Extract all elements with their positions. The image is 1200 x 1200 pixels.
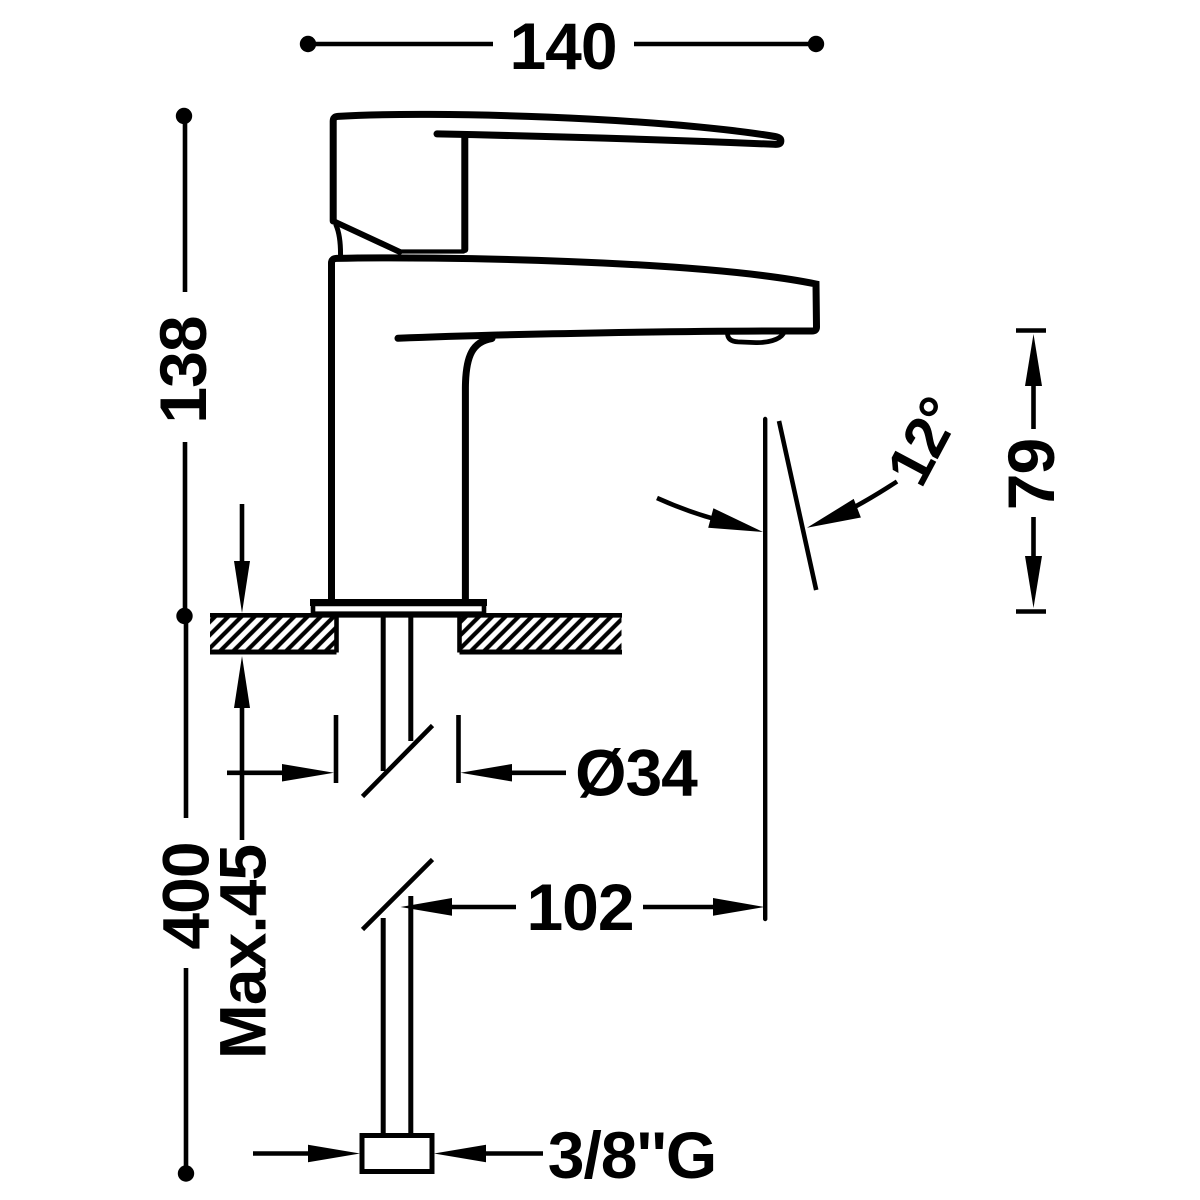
dia 34 left arrow: [227, 764, 334, 782]
dim 400 upper line: [184, 623, 189, 818]
threaded rod upper segment: [383, 617, 411, 771]
handle body: [333, 114, 781, 221]
handle rear diagonal: [334, 221, 400, 252]
handle front edge and bottom: [461, 137, 468, 250]
svg-text:3/8''G: 3/8''G: [548, 1118, 716, 1192]
Max.45 down arrow: [234, 504, 250, 613]
dim 102 right line and arrow: [643, 898, 765, 916]
counter top line: [210, 613, 622, 618]
handle pivot arc: [336, 225, 341, 258]
svg-text:Ø34: Ø34: [575, 736, 698, 810]
dim 140 right line: [634, 42, 812, 47]
dia 34 left extension line: [334, 715, 339, 783]
dim 140 left dot: [300, 36, 316, 52]
Max.45 up arrow: [234, 656, 250, 840]
faucet spout underside fillet and column front edge: [465, 339, 492, 602]
dim 138 top dot: [176, 108, 192, 124]
dim 138 upper line: [183, 122, 188, 292]
svg-text:140: 140: [509, 9, 616, 83]
dim 140 right dot: [808, 36, 824, 52]
rod lower break slash: [363, 860, 433, 930]
aerator bump: [728, 334, 784, 343]
dim 138/400 shared dot: [176, 608, 192, 624]
3/8 connector square: [362, 1136, 432, 1172]
dim 79 top tick: [1016, 328, 1046, 333]
dim 79 up arrow: [1025, 334, 1042, 429]
dia 34 right extension line: [456, 715, 461, 783]
svg-text:102: 102: [526, 870, 633, 944]
dim 400 bottom dot: [178, 1165, 194, 1181]
svg-text:79: 79: [994, 439, 1068, 510]
dim 79 down arrow: [1025, 517, 1042, 608]
12 deg slanted stream line: [779, 421, 816, 590]
dim 102 left arrow: [401, 898, 517, 916]
svg-text:138: 138: [146, 316, 220, 423]
handle bottom edge: [400, 249, 464, 253]
rod upper break slash: [363, 726, 433, 797]
dim 138 lower line: [183, 442, 188, 610]
12 deg right arc leader: [807, 482, 897, 528]
3/8 right arrow: [434, 1145, 543, 1163]
counter left hatched block: [210, 616, 337, 653]
counter right hatched block: [460, 616, 623, 653]
threaded rod lower segment: [383, 896, 411, 1135]
12 deg left arc leader: [657, 498, 763, 532]
dia 34 right arrow: [461, 764, 567, 782]
dim 400 lower line: [184, 968, 189, 1168]
svg-text:Max.45: Max.45: [206, 845, 280, 1059]
dim 79 bottom tick: [1016, 609, 1046, 614]
3/8 left arrow: [253, 1145, 360, 1163]
faucet body outline: [332, 258, 817, 601]
outlet vertical reference line: [763, 419, 767, 919]
dim 140 left line: [313, 42, 493, 47]
faucet base flange: [310, 603, 487, 614]
